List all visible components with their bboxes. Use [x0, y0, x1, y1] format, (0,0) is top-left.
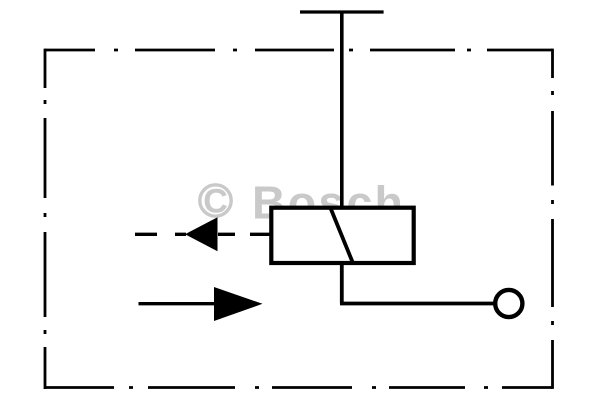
dash-dot enclosure border top side	[45, 49, 553, 52]
dashed pilot line with arrow	[135, 233, 271, 236]
wire from valve down	[340, 261, 344, 304]
valve diagonal element	[331, 208, 353, 262]
pilot arrowhead pointing left	[185, 217, 218, 251]
supply terminal bar	[300, 10, 384, 13]
flow arrowhead pointing right	[214, 287, 263, 321]
watermark copyright symbol	[200, 183, 231, 221]
dash-dot enclosure border right side	[551, 49, 554, 389]
valve body box	[271, 208, 413, 263]
output port circle	[495, 290, 522, 317]
wire from terminal bar to valve	[340, 12, 344, 209]
wire to output port	[340, 302, 495, 306]
dash-dot enclosure border bottom side	[45, 386, 553, 389]
flow direction line	[139, 302, 217, 305]
dash-dot enclosure border left side	[44, 49, 47, 389]
svg-text:C: C	[203, 183, 228, 221]
